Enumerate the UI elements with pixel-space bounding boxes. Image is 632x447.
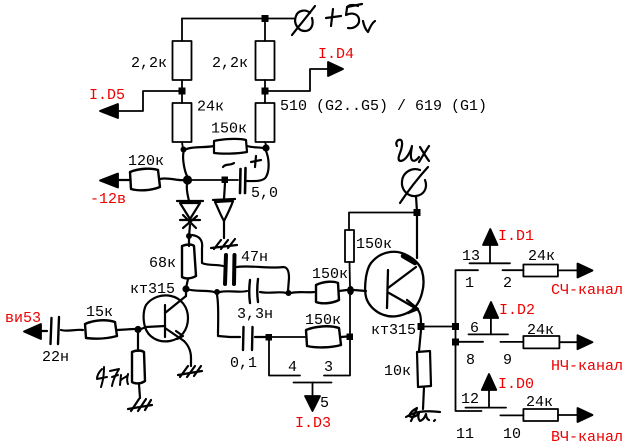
right rail vertical bbox=[456, 271, 482, 412]
wire N5 to Q2 base bbox=[354, 290, 366, 291]
wire R3 bottom bbox=[182, 142, 183, 149]
svg-text:68к: 68к bbox=[149, 255, 176, 272]
wire base bus N2 to node bbox=[186, 289, 214, 292]
resistor R12 150k vertical bbox=[345, 230, 354, 262]
wire J5 down to pin4 bbox=[269, 340, 300, 376]
arrow I.D4 bbox=[328, 62, 343, 76]
switch S1 top bar pin13 bbox=[470, 262, 511, 264]
svg-text:10: 10 bbox=[503, 426, 521, 443]
svg-text:I.D4: I.D4 bbox=[318, 46, 354, 63]
node junction top rail to R2 bbox=[262, 15, 269, 22]
wire C3 to R8 bbox=[61, 329, 83, 332]
wire I.D4 branch bbox=[265, 69, 329, 91]
svg-text:150к: 150к bbox=[312, 266, 348, 283]
switch S2 top bar pin6 bbox=[469, 333, 509, 335]
resistor R10 150k hand-drawn lower bbox=[306, 326, 341, 347]
arrow I.D3 down bbox=[305, 396, 320, 411]
wire R16 to arrow bbox=[558, 414, 578, 416]
wire R11 to N5 bbox=[339, 290, 347, 291]
wire I.D5 branch bbox=[118, 91, 182, 111]
wire R12 to N5 bbox=[349, 262, 352, 286]
svg-text:15к: 15к bbox=[86, 304, 113, 321]
wire Q1 emitter down bbox=[184, 341, 191, 366]
arrow I.D1 up bbox=[483, 229, 498, 245]
wire node to C4 bbox=[220, 291, 247, 292]
switch S3 pin10 bar bbox=[500, 414, 523, 416]
resistor R14 24k bbox=[523, 265, 558, 277]
wire J5 to R10 bbox=[272, 336, 305, 338]
node base Q1 input bbox=[134, 326, 141, 333]
common bar pin 5 bbox=[294, 382, 332, 384]
wire J6 down to pin3 bbox=[324, 340, 350, 376]
node junction pin8 rail bbox=[452, 339, 459, 346]
node junction I.D5 tap bbox=[179, 88, 186, 95]
wire R14 to arrow bbox=[558, 269, 578, 271]
wire R1 to R3 bbox=[181, 80, 183, 103]
capacitor C4 3,3n bbox=[249, 279, 258, 303]
svg-text:150к: 150к bbox=[305, 312, 341, 329]
wire I.D0 arrow stem bbox=[488, 390, 490, 408]
resistor R6 120k hand-drawn bbox=[130, 169, 160, 191]
wire node234 right to C47n bbox=[192, 235, 223, 266]
node junction Ux bbox=[414, 209, 421, 216]
node junction I.D4 tap bbox=[262, 88, 269, 95]
wire R13 to ground bbox=[423, 387, 424, 409]
resistor R9 47k hand-drawn bbox=[132, 351, 145, 384]
svg-text:I.D1: I.D1 bbox=[498, 228, 534, 245]
diode VD2 bbox=[213, 199, 235, 221]
wire node149 to N1 bbox=[183, 152, 187, 176]
wire N1 down to VD1 bbox=[187, 184, 189, 201]
node junction Q2 emitter bbox=[418, 323, 425, 330]
svg-text:10к: 10к bbox=[384, 363, 411, 380]
capacitor C1 5,0 bbox=[240, 168, 246, 193]
resistor R8 15k hand-drawn bbox=[85, 320, 117, 338]
svg-text:НЧ-канал: НЧ-канал bbox=[551, 358, 623, 375]
wire R6 to N1 bbox=[160, 178, 184, 180]
svg-text:24к: 24к bbox=[528, 248, 555, 265]
wire VD2 to ground bbox=[223, 221, 225, 238]
svg-text:150к: 150к bbox=[356, 236, 392, 253]
wire emitter node down to R13 bbox=[419, 330, 421, 351]
resistor R11 150k hand-drawn mid bbox=[316, 282, 339, 304]
wire node down to R9 bbox=[137, 333, 139, 351]
wire Q1 collector to N2 bbox=[185, 289, 187, 296]
wire R9 to ground bbox=[139, 384, 140, 398]
wire C4 to N3 bbox=[260, 292, 286, 293]
wire C1node down to VD2 bbox=[224, 183, 225, 199]
wire emitter to right rail bbox=[424, 326, 453, 328]
svg-text:24к: 24к bbox=[197, 99, 224, 116]
wire Ux down to Q2 collector bbox=[416, 216, 418, 258]
wire node234 to R7 bbox=[188, 239, 190, 246]
wire node to Q1 base bbox=[141, 326, 165, 329]
wire R4 bottom bbox=[265, 142, 266, 145]
svg-text:5,0: 5,0 bbox=[251, 185, 278, 202]
resistor R16 24k bbox=[523, 409, 558, 421]
svg-text:0,1: 0,1 bbox=[230, 355, 257, 372]
arrow vi53 bbox=[24, 324, 41, 339]
wire Q2 emitter down bbox=[418, 310, 421, 326]
svg-text:510 (G2..G5) / 619 (G1): 510 (G2..G5) / 619 (G1) bbox=[280, 98, 487, 115]
diode VD1 bbox=[177, 201, 203, 228]
svg-text:I.D5: I.D5 bbox=[89, 87, 125, 104]
capacitor C2 47n bbox=[225, 255, 235, 284]
capacitor C3 22n bbox=[51, 317, 60, 344]
svg-text:8: 8 bbox=[466, 352, 475, 369]
wire I.D1 arrow stem bbox=[489, 245, 491, 263]
wire R15 to arrow bbox=[559, 341, 578, 343]
svg-text:2,2к: 2,2к bbox=[131, 55, 167, 72]
svg-text:24к: 24к bbox=[526, 394, 553, 411]
arrow -12v bbox=[100, 174, 118, 188]
svg-text:ВЧ-канал: ВЧ-канал bbox=[551, 429, 623, 446]
wire arrow to C3 bbox=[41, 330, 47, 332]
resistor R5 150k hand-drawn bbox=[214, 139, 247, 154]
resistor R15 24k bbox=[523, 336, 559, 348]
svg-text:120к: 120к bbox=[128, 153, 164, 170]
wire pin5 down bbox=[312, 383, 314, 398]
resistor R7 68k hand-drawn bbox=[182, 245, 196, 279]
resistor R2 2,2k bbox=[256, 41, 275, 80]
arrow I.D5 bbox=[100, 104, 118, 118]
wire N1 to C1 bbox=[187, 179, 238, 181]
node N2 base Q1 bbox=[182, 285, 189, 292]
wire node292 down to C5 bbox=[217, 295, 240, 337]
label Ux handwritten bbox=[396, 140, 429, 162]
arrow I.D0 up bbox=[482, 374, 497, 390]
wire R5 to O1 bbox=[247, 146, 263, 148]
node junction emitter rail bbox=[452, 323, 459, 330]
wire O1 down to cap plus side bbox=[247, 151, 269, 181]
svg-text:22н: 22н bbox=[42, 349, 69, 366]
wire rail to R2 bbox=[264, 19, 266, 42]
node junction C1 wire / diode VD2 bbox=[222, 177, 229, 184]
resistor R3 24k bbox=[173, 103, 192, 142]
wire C2 right to N3 bbox=[237, 266, 289, 291]
switch S1 pin1 bar bbox=[456, 269, 479, 271]
+5v handwritten label bbox=[326, 4, 375, 32]
wire C5 to J5 bbox=[255, 336, 266, 338]
arrow VCh output bbox=[578, 408, 593, 422]
node O1 below R4 bbox=[262, 144, 269, 151]
svg-text:150к: 150к bbox=[211, 121, 247, 138]
node below R3 bbox=[181, 147, 187, 153]
ground below R9 bbox=[128, 399, 152, 411]
arrow I.D2 up bbox=[484, 302, 499, 318]
wire R10 to J6 bbox=[341, 335, 347, 338]
switch S2 pin8 bar bbox=[456, 341, 484, 343]
ground below R13 handwritten bbox=[406, 408, 440, 421]
ground below VD2 bbox=[211, 239, 237, 249]
wire rail to R1 bbox=[181, 19, 183, 42]
wire N5 down to J6 bbox=[349, 295, 351, 334]
label 47k handwritten bbox=[97, 367, 128, 387]
svg-text:I.D2: I.D2 bbox=[499, 302, 535, 319]
svg-text:6: 6 bbox=[470, 320, 479, 337]
wire VD1 to node234 bbox=[189, 225, 190, 236]
node below VD1 bbox=[186, 233, 192, 239]
svg-text:24к: 24к bbox=[527, 322, 554, 339]
wire Ux branch left bbox=[349, 213, 417, 231]
node junction 0,1 branch bbox=[214, 289, 220, 295]
svg-text:СЧ-канал: СЧ-канал bbox=[551, 282, 623, 299]
node junction J5 bbox=[266, 334, 273, 341]
switch S2 pin9 bar bbox=[500, 341, 523, 343]
label minus tilde bbox=[223, 163, 234, 167]
node N1 main bbox=[183, 175, 192, 184]
wire R8 to base node bbox=[117, 329, 134, 330]
svg-text:1: 1 bbox=[465, 275, 474, 292]
node N5 base Q2 bbox=[347, 286, 354, 295]
svg-text:13: 13 bbox=[462, 248, 480, 265]
switch S3 top bar pin12 bbox=[466, 407, 507, 409]
svg-text:4: 4 bbox=[288, 359, 297, 376]
wire R2 to R4 bbox=[264, 80, 266, 103]
arrow NCh output bbox=[578, 335, 593, 349]
resistor R13 10k bbox=[417, 351, 431, 387]
svg-text:9: 9 bbox=[503, 352, 512, 369]
svg-text:3,3н: 3,3н bbox=[237, 306, 273, 323]
wire node to R5 bbox=[184, 146, 214, 150]
label plus sign bbox=[251, 156, 261, 167]
svg-text:2,2к: 2,2к bbox=[212, 55, 248, 72]
svg-text:-12в: -12в bbox=[90, 191, 126, 208]
svg-text:11: 11 bbox=[456, 426, 474, 443]
arrow SCh output bbox=[578, 264, 593, 278]
Ux connector circle bbox=[402, 169, 426, 196]
power symbol +5v connector circle bbox=[295, 11, 313, 31]
svg-text:2: 2 bbox=[503, 275, 512, 292]
transistor Q1 bbox=[144, 295, 188, 341]
node N3 bbox=[286, 290, 292, 296]
ground below Q1 emitter bbox=[178, 366, 202, 377]
wire Ux circle down bbox=[416, 196, 417, 212]
resistor R4 510 bbox=[256, 103, 275, 142]
transistor Q2 bbox=[365, 252, 424, 317]
svg-text:кт315: кт315 bbox=[371, 322, 416, 339]
switch S1 pin2 bar bbox=[503, 269, 524, 271]
node junction J6 bbox=[347, 334, 354, 341]
wire N3 to R11 bbox=[291, 292, 314, 293]
svg-text:I.D3: I.D3 bbox=[295, 415, 331, 432]
svg-text:3: 3 bbox=[324, 359, 333, 376]
svg-text:I.D0: I.D0 bbox=[498, 376, 534, 393]
resistor R1 2,2k bbox=[173, 41, 192, 80]
wire I.D2 arrow stem bbox=[490, 318, 492, 334]
wire +5v top rail bbox=[182, 18, 294, 20]
svg-text:ви53: ви53 bbox=[5, 310, 41, 327]
svg-text:12: 12 bbox=[461, 391, 479, 408]
svg-text:47н: 47н bbox=[241, 249, 268, 266]
capacitor C5 0,1 bbox=[243, 327, 253, 350]
wire arrow to R6 bbox=[118, 179, 130, 181]
wire R7 to N2 bbox=[186, 279, 188, 288]
svg-text:5: 5 bbox=[320, 395, 329, 412]
